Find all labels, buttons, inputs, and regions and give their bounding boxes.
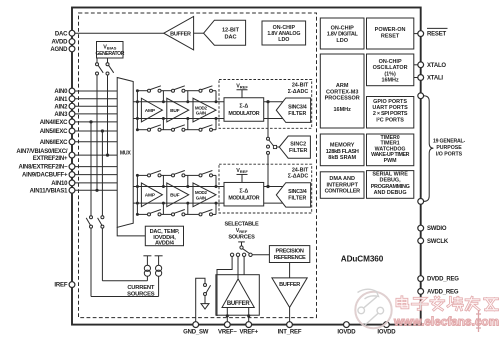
svg-text:LDO: LDO [336, 38, 348, 44]
svg-text:DEBUG,: DEBUG, [380, 178, 402, 184]
svg-text:XTALO: XTALO [427, 63, 446, 69]
svg-text:SINC3/4: SINC3/4 [288, 104, 307, 110]
svg-text:VBIAS: VBIAS [103, 45, 116, 51]
svg-text:EXTREF2IN+: EXTREF2IN+ [33, 156, 68, 162]
svg-text:ON-CHIP: ON-CHIP [331, 25, 355, 31]
svg-text:MEMORY: MEMORY [330, 143, 355, 149]
svg-text:VREF: VREF [236, 228, 248, 234]
svg-text:128kB FLASH: 128kB FLASH [326, 149, 359, 155]
svg-text:FILTER: FILTER [288, 196, 306, 202]
svg-text:BUF: BUF [170, 108, 180, 114]
svg-text:VREF+: VREF+ [239, 330, 258, 336]
svg-text:GPIO PORTS: GPIO PORTS [373, 99, 407, 105]
svg-text:FILTER: FILTER [288, 111, 306, 117]
svg-text:AIN11/VBIAS1: AIN11/VBIAS1 [30, 188, 68, 194]
svg-text:INT_REF: INT_REF [278, 330, 302, 336]
svg-text:BUFFER: BUFFER [170, 31, 191, 37]
svg-text:AIN1: AIN1 [54, 97, 68, 103]
svg-text:AIN0: AIN0 [54, 89, 68, 95]
svg-text:AIN3: AIN3 [54, 112, 68, 118]
svg-text:AGND: AGND [50, 47, 68, 53]
svg-text:CORTEX-M3: CORTEX-M3 [326, 89, 358, 95]
svg-text:AIN10: AIN10 [51, 181, 68, 187]
svg-text:BUFFER: BUFFER [279, 282, 300, 288]
svg-text:LDO: LDO [278, 37, 289, 43]
svg-text:AIN2: AIN2 [54, 104, 68, 110]
svg-text:ADuCM360: ADuCM360 [341, 255, 384, 264]
svg-text:AIN4/IEXC: AIN4/IEXC [40, 120, 68, 126]
svg-text:DAC: DAC [224, 34, 236, 40]
svg-text:XTALI: XTALI [427, 76, 443, 82]
svg-text:24-BIT: 24-BIT [292, 83, 309, 89]
svg-text:ON-CHIP: ON-CHIP [379, 59, 402, 65]
svg-text:MODULATOR: MODULATOR [228, 196, 259, 202]
svg-text:I/O PORTS: I/O PORTS [436, 152, 463, 158]
svg-text:Σ-ΔADC: Σ-ΔADC [288, 174, 309, 180]
svg-text:IREF: IREF [54, 283, 67, 289]
svg-text:POWER-ON: POWER-ON [375, 27, 406, 33]
svg-text:24-BIT: 24-BIT [292, 167, 309, 173]
svg-text:RESET: RESET [427, 32, 447, 38]
svg-text:FILTER: FILTER [289, 148, 308, 154]
svg-text:VREF: VREF [236, 168, 248, 174]
svg-text:19 GENERAL-: 19 GENERAL- [433, 139, 466, 145]
svg-text:Σ-Δ: Σ-Δ [239, 104, 248, 110]
svg-text:MODULATOR: MODULATOR [228, 111, 259, 117]
svg-text:CONTROLLER: CONTROLLER [325, 189, 361, 195]
svg-text:12-BIT: 12-BIT [222, 27, 240, 33]
svg-text:SOURCES: SOURCES [127, 291, 155, 297]
svg-text:IOVDD: IOVDD [337, 330, 356, 336]
svg-text:GAIN: GAIN [196, 195, 206, 200]
svg-text:ON-CHIP: ON-CHIP [273, 25, 296, 31]
svg-text:VREF: VREF [236, 83, 248, 89]
svg-text:GENERATOR: GENERATOR [96, 51, 125, 57]
svg-text:AIN6/IEXC: AIN6/IEXC [40, 140, 68, 146]
svg-text:INTERRUPT: INTERRUPT [326, 182, 358, 188]
svg-text:PROGRAMMING: PROGRAMMING [371, 184, 410, 190]
svg-text:UART PORTS: UART PORTS [372, 105, 408, 111]
svg-text:GND_SW: GND_SW [183, 330, 209, 336]
svg-text:8kB SRAM: 8kB SRAM [328, 155, 356, 161]
svg-text:www.elecfans.com: www.elecfans.com [393, 315, 499, 329]
svg-text:AVDD/4: AVDD/4 [155, 241, 175, 247]
svg-text:AVDD_REG: AVDD_REG [427, 290, 459, 296]
svg-text:16MHz: 16MHz [333, 107, 351, 113]
svg-text:SERIAL WIRE: SERIAL WIRE [372, 171, 408, 177]
svg-text:AIN7/VBIAS0/IEXC/: AIN7/VBIAS0/IEXC/ [16, 149, 67, 155]
svg-text:DAC: DAC [55, 31, 68, 37]
svg-text:PURPOSE: PURPOSE [436, 145, 462, 151]
svg-text:RESET: RESET [381, 34, 400, 40]
svg-text:PRECISION: PRECISION [276, 249, 304, 255]
svg-text:DVDD_REG: DVDD_REG [427, 277, 459, 283]
svg-text:OSCILLATOR: OSCILLATOR [373, 65, 408, 71]
svg-text:SWCLK: SWCLK [427, 239, 449, 245]
svg-text:SINC3/4: SINC3/4 [288, 189, 307, 195]
svg-text:MUX: MUX [120, 151, 131, 157]
svg-text:I2C PORTS: I2C PORTS [376, 117, 404, 124]
svg-text:SOURCES: SOURCES [228, 235, 255, 241]
svg-text:SWDIO: SWDIO [427, 226, 447, 232]
svg-text:1.8V ANALOG: 1.8V ANALOG [267, 31, 300, 37]
svg-text:16MHz: 16MHz [381, 77, 399, 83]
svg-text:REFERENCE: REFERENCE [274, 255, 306, 261]
svg-text:AND DEBUG: AND DEBUG [374, 190, 407, 196]
svg-text:Σ-Δ: Σ-Δ [239, 188, 248, 194]
svg-text:PWM: PWM [384, 158, 397, 164]
svg-text:AIN8/EXTREF2IN−: AIN8/EXTREF2IN− [18, 165, 68, 171]
svg-text:PROCESSOR: PROCESSOR [325, 96, 360, 102]
svg-text:SELECTABLE: SELECTABLE [225, 221, 259, 227]
svg-text:AIN5/IEXC: AIN5/IEXC [40, 129, 68, 135]
svg-text:ARM: ARM [336, 83, 349, 89]
svg-text:Σ-ΔADC: Σ-ΔADC [288, 89, 309, 95]
svg-text:BUFFER: BUFFER [227, 301, 250, 307]
svg-text:IOVDD: IOVDD [377, 330, 396, 336]
svg-text:AVDD: AVDD [52, 40, 69, 46]
svg-text:AIN9/DACBUFF+: AIN9/DACBUFF+ [22, 173, 68, 179]
svg-text:MOD2: MOD2 [195, 105, 208, 110]
svg-text:AMP: AMP [145, 108, 156, 114]
svg-text:1.8V DIGITAL: 1.8V DIGITAL [327, 32, 359, 38]
svg-text:SINC2: SINC2 [290, 142, 306, 148]
svg-text:MOD2: MOD2 [195, 190, 208, 195]
svg-text:CURRENT: CURRENT [127, 285, 155, 291]
svg-text:DMA AND: DMA AND [329, 176, 355, 182]
svg-text:VREF−: VREF− [218, 330, 237, 336]
svg-text:GAIN: GAIN [196, 111, 206, 116]
svg-text:AMP: AMP [145, 193, 156, 199]
svg-text:BUF: BUF [170, 193, 180, 199]
